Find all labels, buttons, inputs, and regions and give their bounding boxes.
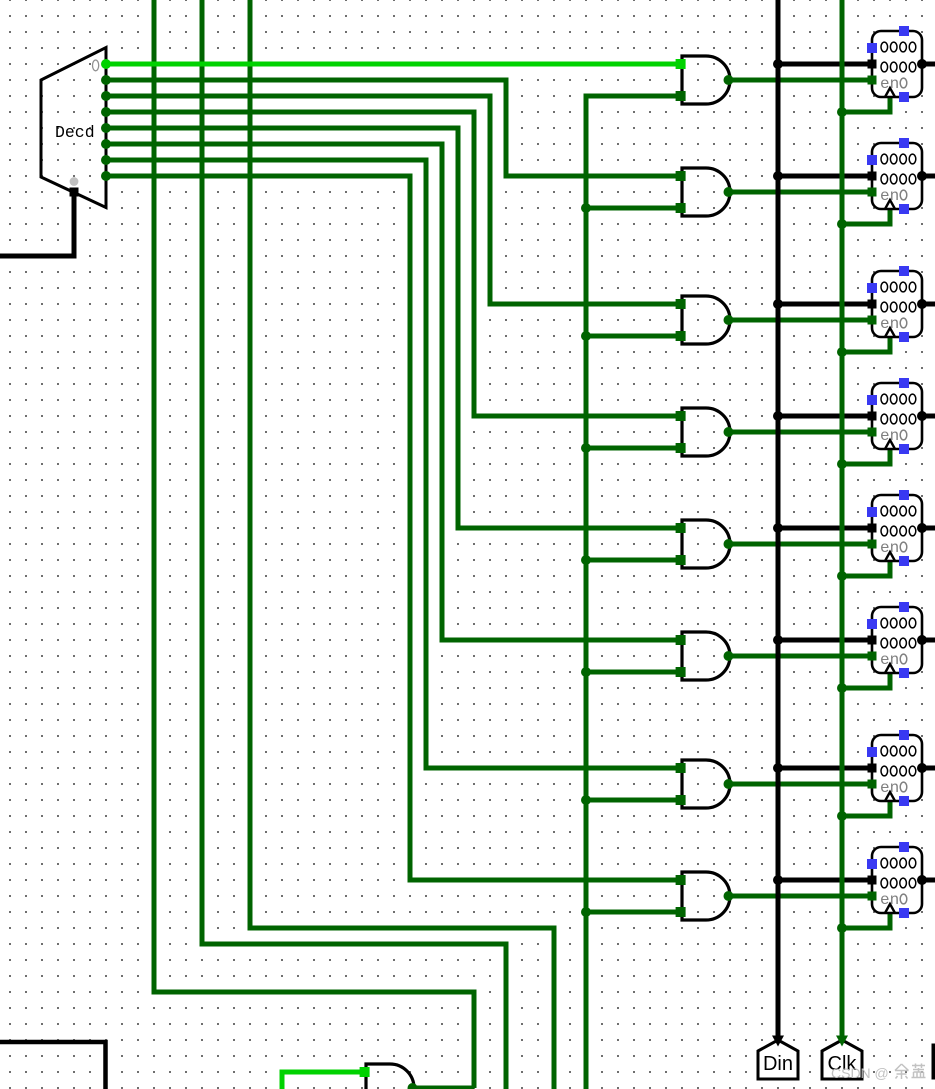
svg-text:Decd: Decd — [55, 123, 95, 142]
svg-text:Din: Din — [763, 1053, 793, 1075]
svg-text:en: en — [880, 651, 899, 669]
svg-text:en: en — [880, 187, 899, 205]
svg-text:en: en — [880, 539, 899, 557]
svg-text:en: en — [880, 427, 899, 445]
svg-text:en: en — [880, 779, 899, 797]
svg-text:en: en — [880, 891, 899, 909]
svg-text:en: en — [880, 315, 899, 333]
svg-text:en: en — [880, 75, 899, 93]
svg-text:CSDN @: CSDN @ — [831, 1065, 889, 1081]
